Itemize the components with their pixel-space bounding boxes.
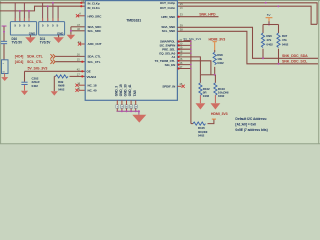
wire TX_TERM_CTL [177,61,211,75]
svg-text:GND: GND [57,31,63,35]
svg-text:18: 18 [77,81,80,85]
junction dot (278.5,63.8) [278,63,280,65]
ground D11 (TVS 5V) [53,37,63,43]
junction dot (269,24.5) [268,24,270,26]
page border frame [0,0,320,144]
wire SCL_SRC stub [71,30,85,32]
pin connection dot (178.6,64.6) [178,64,180,66]
junction dot at pin [81,61,83,63]
svg-text:NC_40: NC_40 [88,89,97,93]
junction dot (126.5,111.3) [126,110,128,112]
pin connection dot (178.6,68.5) [178,67,180,69]
resistor R102 [199,75,201,83]
ground R99 [51,91,58,95]
svg-text:5: 5 [52,24,54,28]
ground R103 [211,103,221,109]
svg-text:HDMI_3V3: HDMI_3V3 [211,112,228,116]
svg-text:GND_41: GND_41 [128,84,132,96]
svg-text:HDMI_3V3: HDMI_3V3 [209,38,226,42]
no-connect X SPDIF_IN [182,85,185,88]
svg-text:0402: 0402 [266,42,273,46]
svg-text:26: 26 [180,6,183,10]
ground R102 [196,103,206,109]
pin connection dot (178.6,56.9) [178,56,180,58]
svg-text:0402: 0402 [58,87,65,91]
page background [0,0,320,144]
resistor R98 [214,50,216,52]
svg-text:5: 5 [42,24,44,28]
pin connection dot (178.6,49.2) [178,48,180,50]
ground D10 (TVS 5V) [25,37,35,43]
svg-text:0402: 0402 [198,133,205,137]
svg-text:44: 44 [78,40,81,44]
wire SDA_SRC stub [71,26,85,28]
pin stub NC_18 [79,84,85,86]
strap junction dots [190,41,192,43]
junction dot (278.3,6.2) [277,5,279,7]
pin connection dot (81.3,6.2) [80,5,82,7]
wire TVS D10 pin1 drop [14,3,16,22]
resistor R96 [262,25,264,34]
wire A1 [177,57,200,75]
TVS diode array D10 [10,22,36,36]
svg-text:45: 45 [179,82,182,86]
svg-text:[4C4]: [4C4] [15,55,23,59]
svg-text:0402: 0402 [32,84,39,88]
svg-text:GND_30: GND_30 [124,84,128,96]
wire IN_CLKp (left) [0,2,85,4]
ground stem [4,74,6,78]
svg-text:SDA_CTL: SDA_CTL [27,55,44,59]
ground (left box) [1,77,8,81]
power flag HDMI_3V3 (R105) [212,119,216,120]
junction dot (214.7,74.8) [214,74,216,76]
wire TVS D10 pin4 drop [28,11,30,22]
svg-text:TMDS181: TMDS181 [126,19,141,23]
svg-text:[4C4]: [4C4] [15,60,23,64]
svg-text:SPDIF_IN: SPDIF_IN [162,85,175,89]
svg-text:OE: OE [87,70,91,74]
resistor R103 [214,75,216,83]
pin stub NC_40 [79,89,85,91]
power bar top-left [2,26,7,27]
junction dots on clk hooks [265,2,267,4]
junction dots on clk nets [19,10,21,12]
pin stub ARC_OUT [80,43,85,45]
svg-text:30: 30 [179,42,182,46]
svg-text:47: 47 [77,23,80,27]
svg-text:ARC_OUT: ARC_OUT [88,42,102,46]
svg-text:5: 5 [14,24,16,28]
junction dot [70,30,72,32]
svg-text:5: 5 [47,24,49,28]
wire SDA_SNK to SNK_DDC_SDA [177,27,318,58]
svg-text:26: 26 [179,57,182,61]
junction dot (190.9,64.6) [190,64,192,66]
wire TVS D11 pin4 drop [57,6,59,22]
junction dot (131.1,111.3) [130,110,132,112]
svg-text:42: 42 [77,67,80,71]
svg-text:0402: 0402 [217,61,224,65]
svg-text:0402: 0402 [218,94,225,98]
pin stubs into TVS boxes [15,18,58,22]
svg-text:38: 38 [180,27,183,31]
wire TVS D10 pin3 drop [23,3,25,22]
junction dot (190.9,45.4) [190,45,192,47]
dot at OE pin [81,70,83,72]
svg-text:28: 28 [179,49,182,53]
tiny pin number boxes [116,105,137,108]
no-connect X NC_18 [75,84,78,87]
GND bus under IC [117,100,135,111]
svg-text:TAB: TAB [133,89,137,96]
svg-text:SDA_CTL: SDA_CTL [88,55,102,59]
svg-text:SCL_SRC: SCL_SRC [88,29,102,33]
svg-text:TVS 5V: TVS 5V [12,40,23,44]
svg-text:SNK_DDC_SCL: SNK_DDC_SCL [282,60,308,64]
ground stem D10 [29,35,31,37]
svg-text:GND_19: GND_19 [119,84,123,96]
svg-text:SCL_CTL: SCL_CTL [27,60,43,64]
pin stub SPDIF_IN [177,85,181,87]
wire OUT_CLKn (right hook) [177,6,317,24]
no-connect X ARC_OUT [78,42,81,45]
wire down to ground [70,27,72,35]
wire TVS D10 pin2 drop [19,11,21,22]
junction dot [3,31,5,33]
svg-text:TVS 5V: TVS 5V [40,40,51,44]
svg-text:Default I2C Address:: Default I2C Address: [235,117,267,121]
svg-text:17: 17 [77,72,80,76]
svg-text:29: 29 [179,46,182,50]
wire SCL_SNK to SNK_DDC_SCL [177,31,318,64]
svg-text:33: 33 [180,13,183,17]
svg-text:40: 40 [77,87,80,91]
no-connect X HPD_SRC [76,14,79,17]
ground (SRC I2C) [67,35,76,40]
svg-text:SCL_SNK: SCL_SNK [162,29,176,33]
TVS diode array D11 [39,22,65,36]
wire 5V_SIG_3V3 to OE [25,70,85,72]
wire IN_CLKn (left, jog) [0,6,85,11]
junction dot (52.9,2.8) [52,2,54,4]
svg-text:5: 5 [24,24,26,28]
wire TVS D11 pin1 drop [42,3,44,22]
capacitor C202 [24,71,26,82]
svg-text:HPD_SNK: HPD_SNK [161,15,176,19]
control pin stubs [177,42,191,69]
svg-text:0402: 0402 [203,94,210,98]
rail to R96/R97 [263,24,279,26]
ground C202 [21,91,28,95]
svg-text:0x5E (7 address bits): 0x5E (7 address bits) [235,128,267,132]
wire SCL_CTL [55,61,84,63]
svg-text:GND_3: GND_3 [114,86,118,97]
svg-text:SCL_CTL: SCL_CTL [88,60,101,64]
node wire [200,74,215,76]
svg-text:OUT_CLKn: OUT_CLKn [160,6,176,10]
svg-text:VSADJ: VSADJ [87,75,97,79]
component box (cropped at left edge) [2,60,9,74]
strap wire A0/A1 [184,41,191,124]
junction dot (190.9,49.2) [190,48,192,50]
svg-text:25: 25 [180,2,183,6]
svg-text:OUT_CLKp: OUT_CLKp [160,1,176,5]
svg-text:5: 5 [19,24,21,28]
resistor R99 [70,75,85,77]
svg-text:NC_18: NC_18 [88,84,97,88]
ground (IC) [132,115,146,123]
no-connect X NC_40 [75,89,78,92]
wire left 5V branch [3,27,5,42]
pin connection dot (178.6,60.8) [178,60,180,62]
svg-text:SIG_EN: SIG_EN [165,63,176,67]
junction dots at IN_CLK pins [80,2,82,4]
junction dot (135.7,111.3) [135,110,137,112]
svg-text:39: 39 [180,23,183,27]
capacitor (left, unlabeled) [1,41,7,43]
wire TVS D11 pin3 drop [52,3,54,22]
junction dot (121.9,111.3) [121,110,123,112]
ground stem D11 [58,35,60,37]
svg-text:27: 27 [179,53,182,57]
offsheet chevron [50,54,55,58]
junction dot (263,58.3) [262,57,264,59]
svg-text:IN_CLKn: IN_CLKn [88,6,100,10]
svg-text:5: 5 [28,24,30,28]
junction dot (190.9,68.5) [190,68,192,70]
pin dots [178,40,180,42]
svg-text:0402: 0402 [282,42,289,46]
junction dot (138.9,111.3) [138,110,140,112]
junction dot (29,10.9) [28,10,30,12]
wire OUT_CLKp (right hook) [177,3,317,25]
wire TVS D11 pin2 drop [47,6,49,22]
offsheet chevron [50,60,55,64]
wire SDA_CTL [55,55,84,57]
junction dot (47.7,6.2) [47,5,49,7]
svg-text:31: 31 [179,38,182,42]
svg-text:[A1:A0] = 0x0: [A1:A0] = 0x0 [235,123,256,127]
svg-text:5: 5 [57,24,59,28]
pin connection dot (178.6,53.1) [178,52,180,54]
dot at VSADJ pin [81,75,83,77]
resistor R97 [278,25,280,34]
svg-text:GND: GND [29,31,35,35]
wire HPD_SNK [177,16,218,18]
svg-text:5V_SIG_3V3: 5V_SIG_3V3 [28,66,48,70]
svg-text:36: 36 [179,61,182,65]
pin connection dot (178.6,45.4) [178,44,180,46]
svg-text:12: 12 [81,0,84,3]
junction dot (190.9,53.1) [190,52,192,54]
svg-text:SNK_HPD: SNK_HPD [199,12,216,16]
svg-text:46: 46 [77,27,80,31]
resistor R105 [191,123,193,125]
svg-text:HPD_SRC: HPD_SRC [88,15,103,19]
svg-text:16: 16 [77,52,80,56]
pin stub HPD_SRC [78,15,85,17]
svg-text:5V: 5V [267,13,271,17]
svg-text:15: 15 [77,58,80,62]
IC U? TMDS181 [85,1,177,101]
tiny pin numbers in boxes [117,107,138,109]
svg-text:37: 37 [179,65,182,69]
svg-text:IN_CLKp: IN_CLKp [88,1,100,5]
svg-text:SNK_DDC_SDA: SNK_DDC_SDA [282,54,308,58]
pin connection dot (178.6,16.7) [178,16,180,18]
